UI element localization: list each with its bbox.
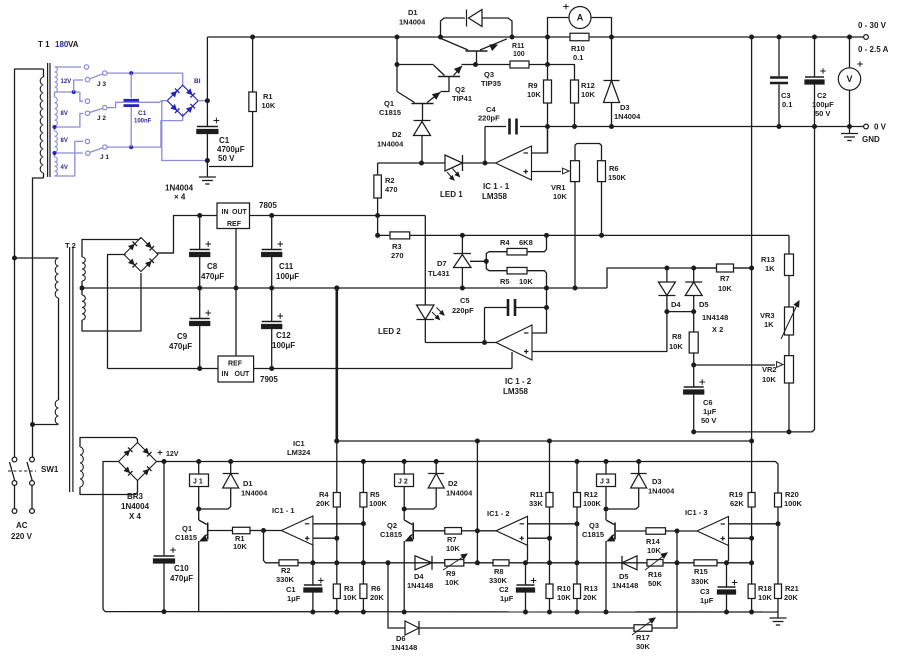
resistor R15 330K bottom xyxy=(694,560,717,566)
svg-text:IC1 - 2: IC1 - 2 xyxy=(487,509,510,518)
wire IC1-1 base corner down xyxy=(312,545,314,563)
svg-text:470μF: 470μF xyxy=(201,272,224,281)
svg-text:1N4004: 1N4004 xyxy=(165,184,194,193)
svg-text:330K: 330K xyxy=(489,576,508,585)
svg-text:62K: 62K xyxy=(730,499,744,508)
ammeter A xyxy=(548,18,569,38)
svg-text:10K: 10K xyxy=(343,593,357,602)
svg-text:IC 1 - 2: IC 1 - 2 xyxy=(505,377,532,386)
wire tap2 riser to J2 throw xyxy=(80,92,83,101)
capacitor C6 1uF xyxy=(693,365,695,387)
svg-text:50 V: 50 V xyxy=(701,416,716,425)
svg-text:10K: 10K xyxy=(758,593,772,602)
svg-text:R8: R8 xyxy=(672,332,682,341)
svg-text:10K: 10K xyxy=(581,90,595,99)
svg-text:D1: D1 xyxy=(243,479,253,488)
terminal 0V xyxy=(864,124,869,129)
wire sec3 to BR3 top xyxy=(80,438,138,448)
resistor R19 62K bottom xyxy=(749,439,754,444)
svg-text:C2: C2 xyxy=(499,585,509,594)
diode D5 bottom xyxy=(622,556,637,570)
potentiometer VR2 xyxy=(785,356,794,383)
svg-text:50K: 50K xyxy=(648,579,662,588)
svg-text:D5: D5 xyxy=(699,300,709,309)
svg-text:470: 470 xyxy=(385,185,398,194)
svg-text:D4: D4 xyxy=(414,572,424,581)
svg-text:D2: D2 xyxy=(392,130,402,139)
op-amp IC1-2 xyxy=(496,325,532,360)
wire feedback rail1 xyxy=(337,440,752,442)
capacitor C3 output xyxy=(777,35,782,40)
wire mid rail jog up xyxy=(607,268,752,288)
capacitor C3 1uF bottom xyxy=(724,560,729,565)
transistor Q3 bottom xyxy=(605,509,607,520)
capacitor C8 470uF xyxy=(199,216,201,250)
terminal 0-30V xyxy=(864,35,869,40)
transformer T2 secondary xyxy=(82,257,85,281)
svg-text:C10: C10 xyxy=(174,564,189,573)
svg-text:C3: C3 xyxy=(700,587,710,596)
svg-text:C8: C8 xyxy=(207,262,218,271)
resistor R10 shunt xyxy=(570,33,589,41)
diode D6 and R17 loop xyxy=(386,560,391,565)
transformer T2 core xyxy=(69,247,71,492)
svg-text:10K: 10K xyxy=(553,192,567,201)
svg-text:33K: 33K xyxy=(529,499,543,508)
node bus2-C1 junction xyxy=(129,145,133,149)
svg-text:12V: 12V xyxy=(61,79,72,85)
wire tap34 to J1 blade xyxy=(55,152,84,154)
svg-text:180: 180 xyxy=(55,40,69,49)
svg-text:30K: 30K xyxy=(636,642,650,651)
svg-text:100: 100 xyxy=(513,51,525,58)
svg-text:100K: 100K xyxy=(369,499,388,508)
wire blue bus2 xyxy=(107,113,183,147)
svg-text:J 3: J 3 xyxy=(600,479,610,486)
svg-text:7805: 7805 xyxy=(259,201,277,210)
svg-text:D5: D5 xyxy=(619,572,629,581)
resistor R7 bottom xyxy=(414,530,445,532)
svg-text:330K: 330K xyxy=(276,575,295,584)
capacitor C2 1uF bottom xyxy=(523,560,528,565)
resistor R1 bottom xyxy=(209,530,233,532)
svg-text:TL431: TL431 xyxy=(428,269,450,278)
potentiometer VR3 xyxy=(785,307,794,335)
capacitor C4 feedback xyxy=(484,127,486,164)
transformer T2 third secondary xyxy=(80,447,83,487)
diode D1 bottom xyxy=(228,459,233,464)
svg-text:6K8: 6K8 xyxy=(519,238,533,247)
svg-text:D7: D7 xyxy=(437,259,447,268)
svg-text:10K: 10K xyxy=(519,277,533,286)
svg-text:R14: R14 xyxy=(646,537,661,546)
svg-text:8V: 8V xyxy=(61,111,68,117)
resistor R2 330K bottom xyxy=(279,560,298,566)
wire regulator IN line xyxy=(159,216,218,254)
diode D3 bottom xyxy=(636,459,641,464)
wire IC1-2 minus input xyxy=(532,308,547,334)
node bus1-C1 junction xyxy=(129,71,133,75)
svg-text:R9: R9 xyxy=(446,569,456,578)
label +12V xyxy=(158,452,163,454)
resistor R12 xyxy=(548,65,575,81)
wire tap1 to J3 throw xyxy=(55,66,82,68)
svg-text:R18: R18 xyxy=(758,584,772,593)
wire IC1-1 plus input xyxy=(532,171,562,173)
resistor R5 bottom xyxy=(362,462,364,493)
svg-text:R12: R12 xyxy=(584,490,598,499)
wire BR3 neg column xyxy=(103,462,119,612)
diode D7 TL431 xyxy=(460,233,465,238)
transformer T1 core xyxy=(47,63,49,177)
svg-text:100K: 100K xyxy=(583,499,602,508)
svg-text:X 4: X 4 xyxy=(129,512,142,521)
svg-text:C1: C1 xyxy=(286,585,296,594)
svg-text:LM358: LM358 xyxy=(482,192,507,201)
wire T2 sec top to bridge xyxy=(82,238,141,258)
svg-text:VA: VA xyxy=(68,40,79,49)
wire regulator OUT line xyxy=(250,215,426,217)
svg-text:IC 1 - 1: IC 1 - 1 xyxy=(483,182,510,191)
node collector junction xyxy=(395,62,400,67)
svg-text:R10: R10 xyxy=(571,44,585,53)
svg-text:50 V: 50 V xyxy=(815,109,830,118)
diode D1 xyxy=(438,35,443,40)
svg-text:0.1: 0.1 xyxy=(573,53,583,62)
wire output IC1-2 feedback xyxy=(476,531,478,563)
wire IC1-2 minus bottom xyxy=(528,523,578,525)
svg-text:LM324: LM324 xyxy=(287,448,311,457)
wire T2 bridge neg column xyxy=(108,255,126,369)
transistor Q2 bottom xyxy=(403,509,405,520)
potentiometer R9 bottom xyxy=(445,560,464,567)
svg-text:R7: R7 xyxy=(447,535,457,544)
svg-text:AC: AC xyxy=(16,521,28,530)
svg-text:0.1: 0.1 xyxy=(782,100,792,109)
svg-text:10K: 10K xyxy=(233,542,247,551)
svg-text:TIP35: TIP35 xyxy=(481,79,501,88)
wire R3 line xyxy=(378,234,789,236)
svg-text:10K: 10K xyxy=(262,101,276,110)
node 0V rail start xyxy=(545,124,550,129)
wire tap2 xyxy=(55,91,80,93)
regulator 7905 xyxy=(218,356,254,382)
svg-text:220 V: 220 V xyxy=(11,532,33,541)
wire 7905 REF pin xyxy=(235,288,237,356)
svg-text:REF: REF xyxy=(227,221,242,228)
wire IC1-3 base corner down xyxy=(728,545,730,561)
svg-text:220pF: 220pF xyxy=(452,306,474,315)
resistor R21 20K bottom xyxy=(775,584,782,599)
switch SW1 xyxy=(10,462,15,481)
svg-text:BI: BI xyxy=(194,78,201,85)
resistor R10 bottom xyxy=(547,560,552,565)
capacitor C1 4700uF xyxy=(206,101,208,127)
wire VR2 bottom to C2 column xyxy=(694,127,815,432)
svg-text:150K: 150K xyxy=(608,173,627,182)
node R9 out xyxy=(475,560,480,565)
svg-text:C5: C5 xyxy=(460,296,470,305)
LED LED2 xyxy=(424,216,426,306)
svg-text:R3: R3 xyxy=(392,242,402,251)
svg-text:C1815: C1815 xyxy=(582,530,604,539)
svg-text:0 - 2.5 A: 0 - 2.5 A xyxy=(858,45,889,54)
svg-text:1μF: 1μF xyxy=(700,596,714,605)
node Q3 emitter bottom xyxy=(604,610,609,615)
svg-text:V: V xyxy=(846,74,852,84)
svg-text:100μF: 100μF xyxy=(812,100,834,109)
svg-text:100μF: 100μF xyxy=(276,272,299,281)
svg-text:REF: REF xyxy=(228,361,243,368)
ground output xyxy=(849,127,851,134)
svg-text:VR3: VR3 xyxy=(760,311,775,320)
svg-text:10K: 10K xyxy=(527,90,541,99)
svg-text:20K: 20K xyxy=(784,593,798,602)
wire IC1-1 minus bottom xyxy=(313,523,364,525)
svg-text:20K: 20K xyxy=(316,499,330,508)
svg-text:C6: C6 xyxy=(703,398,713,407)
diode D2 xyxy=(414,120,431,122)
jumper J1 blade xyxy=(90,148,103,153)
node bridge output xyxy=(205,98,210,103)
voltmeter V xyxy=(847,35,852,40)
svg-text:D3: D3 xyxy=(620,103,630,112)
capacitor C11 100uF xyxy=(271,216,273,250)
svg-text:IN: IN xyxy=(222,209,229,216)
wire VR2 wiper line xyxy=(694,364,775,366)
op-amp IC1-1 bottom xyxy=(264,530,282,532)
svg-text:1μF: 1μF xyxy=(703,407,717,416)
wire 12V rail xyxy=(164,462,778,494)
svg-text:J 3: J 3 xyxy=(97,81,106,88)
svg-text:470μF: 470μF xyxy=(169,342,192,351)
svg-text:C12: C12 xyxy=(276,331,291,340)
wire BR3 pos to 12V rail xyxy=(157,461,165,463)
svg-text:R5: R5 xyxy=(370,490,380,499)
wire IC1-1 minus input xyxy=(532,127,548,154)
svg-text:0 V: 0 V xyxy=(874,123,887,132)
wire D2 LED1 line xyxy=(378,162,445,164)
resistor R18 bottom xyxy=(751,563,753,584)
capacitor C1 100nF xyxy=(130,73,132,98)
svg-text:T 2: T 2 xyxy=(65,241,76,250)
svg-text:D1: D1 xyxy=(408,8,418,17)
svg-text:10K: 10K xyxy=(718,284,732,293)
svg-text:20K: 20K xyxy=(370,593,384,602)
svg-text:R8: R8 xyxy=(494,567,504,576)
svg-text:C3: C3 xyxy=(781,91,791,100)
label plus ammeter xyxy=(563,6,569,8)
svg-text:C1815: C1815 xyxy=(380,530,402,539)
svg-text:R9: R9 xyxy=(528,81,538,90)
svg-text:IC1 - 3: IC1 - 3 xyxy=(685,508,708,517)
wire 7805 REF pin xyxy=(235,229,237,289)
svg-text:C2: C2 xyxy=(817,91,827,100)
wire VR1 R6 top bracket xyxy=(575,144,602,161)
resistor R3 xyxy=(390,232,410,239)
svg-text:C1: C1 xyxy=(219,136,230,145)
svg-text:D6: D6 xyxy=(396,634,406,643)
resistor R9 xyxy=(547,65,549,81)
node rail2 R5 xyxy=(361,459,366,464)
svg-text:10K: 10K xyxy=(446,544,460,553)
wire R13 chain top xyxy=(788,235,790,254)
wire IC1-2 base corner down xyxy=(527,545,529,561)
svg-text:330K: 330K xyxy=(691,577,710,586)
svg-text:R21: R21 xyxy=(785,584,799,593)
wire tap4-bottom to J1 throw xyxy=(55,141,84,176)
svg-text:J 2: J 2 xyxy=(97,115,106,122)
svg-text:R6: R6 xyxy=(609,164,619,173)
node D4 top xyxy=(664,266,669,271)
wire tap3 to J2 blade xyxy=(55,114,84,128)
svg-text:BR3: BR3 xyxy=(127,492,144,501)
potentiometer R16 bottom xyxy=(647,560,663,567)
node C4 output junction xyxy=(483,161,488,166)
resistor R1 xyxy=(250,35,255,40)
svg-text:D2: D2 xyxy=(448,479,458,488)
svg-text:LED 1: LED 1 xyxy=(440,190,463,199)
svg-text:Q2: Q2 xyxy=(455,85,465,94)
svg-text:1N4004: 1N4004 xyxy=(241,489,268,498)
resistor R20 100K bottom xyxy=(775,493,782,507)
svg-text:1N4004: 1N4004 xyxy=(399,18,426,27)
wire IC1-3 minus bottom xyxy=(729,523,779,525)
svg-text:OUT: OUT xyxy=(232,209,248,216)
wire bold sense line xyxy=(335,288,338,441)
svg-text:R16: R16 xyxy=(648,570,662,579)
node D5 top xyxy=(691,266,696,271)
resistor R4 bottom xyxy=(336,441,338,493)
svg-text:10K: 10K xyxy=(647,546,661,555)
transistor Q1 bottom xyxy=(198,509,200,520)
svg-text:1N4004: 1N4004 xyxy=(614,112,641,121)
svg-text:J 2: J 2 xyxy=(398,479,408,486)
wire Q2 emitter crossing xyxy=(402,610,407,615)
wire IC1-3 out feedback xyxy=(676,531,678,563)
resistor R4 xyxy=(486,252,507,262)
svg-text:R13: R13 xyxy=(584,584,598,593)
resistor R14 bottom xyxy=(616,530,646,532)
svg-text:LED 2: LED 2 xyxy=(378,327,401,336)
wire IC1-2 plus input xyxy=(532,312,667,352)
svg-text:R13: R13 xyxy=(761,255,775,264)
resistor R5 xyxy=(486,261,507,270)
svg-text:1N4148: 1N4148 xyxy=(391,643,417,652)
potentiometer R17 30K xyxy=(634,625,652,632)
node 12V xyxy=(162,459,167,464)
svg-text:1N4004: 1N4004 xyxy=(377,140,404,149)
svg-text:1N4148: 1N4148 xyxy=(612,581,638,590)
wire C5 to mid rail xyxy=(546,288,548,308)
svg-text:R12: R12 xyxy=(581,81,595,90)
wire rail left drop to bridge xyxy=(206,37,208,101)
svg-text:4700μF: 4700μF xyxy=(217,145,245,154)
op-amp IC1-3 bottom xyxy=(677,530,697,532)
svg-text:R1: R1 xyxy=(263,92,273,101)
diode D2 bottom xyxy=(434,459,439,464)
wire T2 sec bottom to bridge xyxy=(82,273,141,331)
svg-text:0 - 30 V: 0 - 30 V xyxy=(858,21,887,30)
wire 0V rail xyxy=(548,126,864,128)
svg-text:4V: 4V xyxy=(61,165,68,171)
wire meter shunt column xyxy=(547,37,549,65)
wire IC1-1 plus bottom xyxy=(313,537,337,539)
svg-text:VR2: VR2 xyxy=(762,365,777,374)
capacitor C10 470uF xyxy=(163,462,165,557)
wire sense column x751 xyxy=(751,37,753,441)
svg-text:SW1: SW1 xyxy=(41,465,59,474)
svg-text:X 2: X 2 xyxy=(712,325,723,334)
svg-text:R20: R20 xyxy=(785,490,799,499)
svg-text:220pF: 220pF xyxy=(478,114,500,123)
wire LED1 to opamp xyxy=(463,162,496,164)
ground T1 section xyxy=(206,161,208,177)
wire feedback line y563 xyxy=(264,531,752,563)
svg-text:8V: 8V xyxy=(61,138,68,144)
transistor Q2 xyxy=(397,64,434,66)
svg-text:1N4004: 1N4004 xyxy=(121,502,150,511)
wire mid reference rail xyxy=(82,287,607,289)
resistor R2 xyxy=(377,163,379,175)
svg-text:OUT: OUT xyxy=(235,371,251,378)
transformer T1 secondary coils xyxy=(55,67,58,92)
wire sec3 to BR3 bottom xyxy=(80,481,138,495)
svg-text:R3: R3 xyxy=(344,584,354,593)
capacitor C1 1uF bottom xyxy=(312,563,314,585)
regulator 7805 xyxy=(217,203,250,229)
wire D4 D5 bottom link xyxy=(667,311,694,313)
bridge rectifier BI xyxy=(167,85,198,116)
jumper J2 blade xyxy=(90,108,104,112)
svg-text:A: A xyxy=(577,13,584,23)
relay J1 xyxy=(196,459,201,464)
node R2 R3 xyxy=(377,216,379,236)
wire AC line A xyxy=(15,69,44,457)
wire J2 to bridge BI ac input xyxy=(107,101,162,108)
svg-text:R4: R4 xyxy=(319,490,329,499)
svg-text:R11: R11 xyxy=(530,490,543,499)
relay J2 xyxy=(402,459,407,464)
resistor R6 xyxy=(598,161,606,182)
bridge rectifier T2 xyxy=(124,238,158,272)
svg-text:C1815: C1815 xyxy=(379,108,401,117)
svg-text:Q3: Q3 xyxy=(484,70,494,79)
capacitor C2 output xyxy=(812,35,817,40)
svg-text:R2: R2 xyxy=(281,566,291,575)
op-amp IC1-2 bottom xyxy=(477,530,496,532)
svg-text:10K: 10K xyxy=(669,342,683,351)
svg-text:R17: R17 xyxy=(636,633,650,642)
wire LED2 to IC1-2 xyxy=(425,342,496,344)
svg-text:LM358: LM358 xyxy=(503,387,528,396)
resistor R11 33K bottom xyxy=(547,439,552,444)
resistor R6 bottom xyxy=(362,563,364,584)
wire SW1 pole A xyxy=(12,457,17,462)
svg-text:C9: C9 xyxy=(177,332,188,341)
svg-text:10K: 10K xyxy=(557,593,571,602)
transformer T1 primary coil xyxy=(43,69,45,77)
wire bridge right to dc+ xyxy=(198,100,207,102)
LED LED1 xyxy=(445,155,463,171)
svg-text:R7: R7 xyxy=(720,274,730,283)
svg-text:100μF: 100μF xyxy=(272,341,295,350)
wire bottom rail xyxy=(105,611,776,613)
svg-text:R6: R6 xyxy=(371,584,381,593)
relay J3 xyxy=(604,459,609,464)
svg-text:R19: R19 xyxy=(729,490,743,499)
node C8 top xyxy=(197,213,202,218)
